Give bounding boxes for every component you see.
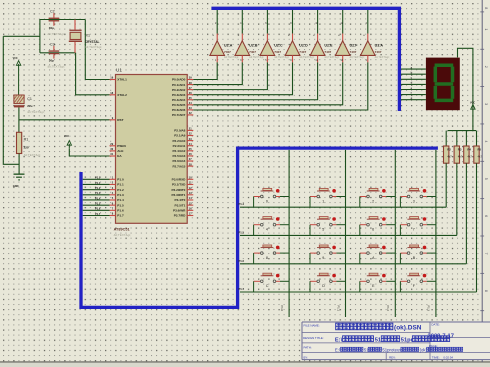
U1 pin 14 P3.4/T0 — [175, 196, 194, 202]
U1 pin 29 PSEN — [110, 142, 127, 148]
svg-text:P1.4: P1.4 — [239, 202, 245, 206]
svg-text:R2: R2 — [447, 148, 451, 152]
svg-text:P1.5: P1.5 — [95, 201, 101, 205]
U1 pin 31 EA — [110, 152, 123, 158]
svg-text:E:\: E:\ — [335, 347, 341, 352]
U1 pin 39 P0.0/AD0 — [172, 76, 193, 82]
U1 pin 28 P2.7/A15 — [172, 162, 193, 168]
wire R4 to keypad row 3 — [465, 163, 467, 264]
svg-text:P1.1: P1.1 — [117, 183, 124, 187]
resistor R3 — [454, 131, 463, 164]
U1 pin 17 P3.7/RD — [174, 212, 194, 218]
svg-text:51proteus: 51proteus — [382, 347, 401, 352]
U1 pin 1 P1.0 — [110, 176, 124, 182]
wire P1.4 bus to U1 with net label P1.4 — [83, 196, 110, 200]
7-segment display body — [426, 58, 460, 111]
svg-text:P1.6: P1.6 — [117, 209, 124, 213]
U1 pin 38 P0.1/AD1 — [172, 81, 193, 87]
svg-text:EA: EA — [117, 154, 122, 158]
push button 7 (row P1.5, col P1.3) — [400, 217, 436, 236]
svg-text:P1.7: P1.7 — [117, 214, 124, 218]
svg-text:8: 8 — [484, 290, 488, 292]
svg-text:P2.4/A12: P2.4/A12 — [172, 149, 185, 153]
svg-text:51pr: 51pr — [401, 337, 414, 343]
svg-text:P0.5/AD5: P0.5/AD5 — [172, 103, 186, 107]
svg-text:P3.2/INT0: P3.2/INT0 — [171, 188, 185, 192]
push button F (row P1.7, col P1.3) — [400, 273, 436, 292]
svg-text:1: 1 — [322, 199, 324, 203]
U1 pin 23 P2.2/A10 — [172, 137, 193, 143]
wire segment c from bus to display — [401, 77, 426, 80]
capacitor C2 — [47, 10, 65, 36]
wire GND branch to crystal loop — [3, 35, 40, 37]
svg-text:7407: 7407 — [224, 50, 231, 54]
svg-text:VCC: VCC — [470, 102, 475, 105]
push button 3 (row P1.4, col P1.3) — [400, 188, 436, 207]
push button 2 (row P1.4, col P1.2) — [360, 188, 396, 207]
svg-text:2: 2 — [484, 66, 488, 68]
U1 pin 5 P1.4 — [110, 196, 124, 202]
svg-text:51: 51 — [375, 337, 381, 343]
U1 pin 19 XTAL1 — [110, 76, 128, 82]
svg-text:P0.0/AD0: P0.0/AD0 — [172, 78, 186, 82]
svg-text:RST: RST — [117, 118, 123, 122]
wire P1.6 bus to U1 with net label P1.6 — [83, 207, 110, 211]
svg-text:8: 8 — [266, 256, 268, 260]
svg-text:P0.6/AD6: P0.6/AD6 — [172, 108, 186, 112]
U1 pin 10 P3.0/RXD — [172, 176, 194, 182]
svg-text:4: 4 — [484, 140, 488, 142]
push button A (row P1.6, col P1.2) — [360, 245, 396, 264]
push button B (row P1.6, col P1.3) — [400, 245, 436, 264]
svg-text:P1.1: P1.1 — [336, 306, 340, 312]
svg-text:5: 5 — [322, 228, 324, 232]
svg-text:(ok).DSN: (ok).DSN — [394, 325, 422, 332]
svg-text:1: 1 — [484, 28, 488, 30]
title block DATE and PAGE — [428, 323, 454, 348]
U1 AT89C51 body — [114, 68, 188, 237]
svg-text:P1.0: P1.0 — [117, 178, 124, 182]
buffer U2:D (U2:D 7407) — [285, 10, 314, 62]
svg-text:U3:A: U3:A — [375, 44, 384, 48]
wire P1.1 bus to U1 with net label P1.1 — [83, 181, 110, 185]
wire P0.4 to buffer 5 input — [193, 62, 317, 99]
svg-text:AT89C51: AT89C51 — [114, 228, 130, 232]
svg-text:P2.2/A10: P2.2/A10 — [172, 139, 185, 143]
buffer U3:A (U3:A 7407) — [361, 10, 390, 62]
svg-text:TIME:: TIME: — [432, 355, 440, 359]
svg-text:R4: R4 — [467, 148, 471, 152]
wire segment d from bus to display — [401, 81, 426, 85]
svg-text:&lt;TEXT&gt;: &lt;TEXT&gt; — [24, 153, 42, 157]
svg-text:7407: 7407 — [274, 50, 281, 54]
svg-text:P1.5: P1.5 — [239, 230, 245, 234]
push button 6 (row P1.5, col P1.2) — [360, 217, 396, 236]
wire P1.2 bus to U1 with net label P1.2 — [83, 186, 110, 190]
svg-text:2: 2 — [372, 199, 374, 203]
svg-text:BY:: BY: — [304, 355, 309, 359]
svg-text:P3.5/T1: P3.5/T1 — [175, 203, 186, 207]
wire left vertical of crystal loop — [39, 19, 41, 53]
svg-text:P1.1: P1.1 — [95, 181, 101, 185]
svg-text:X1: X1 — [86, 34, 90, 38]
U1 pin 24 P2.3/A11 — [173, 142, 194, 148]
svg-text:f: f — [411, 91, 412, 95]
wire pull-up bus (resistor tops) — [448, 130, 477, 132]
wire P0.7 to buffer 7 input — [193, 62, 367, 110]
svg-text:P0.1/AD1: P0.1/AD1 — [172, 83, 186, 87]
wire XTAL2 net: bottom horizontal, vertical down to U1 XTAL2 — [40, 52, 76, 54]
svg-text:7407: 7407 — [299, 50, 306, 54]
wire keypad row P1.6 — [239, 259, 467, 264]
buffer U2:B (U2:B 7407) — [235, 10, 264, 62]
U1 pin 26 P2.5/A13 — [172, 152, 193, 158]
U1 pin 22 P2.1/A9 — [174, 132, 193, 138]
title block row FILE NAME — [304, 323, 422, 331]
U1 pin 8 P1.7 — [110, 212, 124, 218]
U1 pin 2 P1.1 — [110, 181, 124, 187]
svg-text:P2.5/A13: P2.5/A13 — [172, 154, 185, 158]
svg-text:R1: R1 — [24, 137, 29, 141]
U1 pin 11 P3.1/TXD — [172, 181, 193, 187]
wire C1 to R1 — [18, 107, 20, 132]
svg-text:PSEN: PSEN — [117, 144, 126, 148]
U1 pin 4 P1.3 — [110, 191, 124, 197]
sheet border bottom edge — [0, 361, 490, 363]
power flag VCC at display common — [470, 102, 475, 110]
title block row DESIGN TITLE — [303, 336, 450, 344]
wire XTAL1 net: top horizontal, right vertical to U1 XTAL1 — [40, 19, 85, 21]
wire P0.5 to buffer 6 input — [193, 62, 342, 105]
U1 pin 25 P2.4/A12 — [172, 147, 193, 153]
svg-text:P1.6: P1.6 — [95, 207, 101, 211]
U1 pin 36 P0.3/AD3 — [172, 91, 193, 97]
title block row PATH — [304, 345, 463, 352]
svg-text:P3.4/T0: P3.4/T0 — [175, 198, 186, 202]
U1 pin 3 P1.2 — [110, 186, 124, 192]
svg-text:P2.0/A8: P2.0/A8 — [174, 129, 185, 133]
wire P0.0 to buffer 1 input — [193, 62, 217, 79]
push button 9 (row P1.6, col P1.1) — [310, 245, 346, 264]
svg-text:30p: 30p — [49, 59, 54, 63]
svg-text:220: 220 — [24, 146, 29, 150]
svg-text:U2:B: U2:B — [249, 44, 258, 48]
svg-text:3: 3 — [484, 103, 488, 105]
svg-text:7: 7 — [484, 253, 488, 255]
title block row BY REV TIME — [304, 355, 454, 359]
wire R3 to keypad row 2 — [456, 163, 458, 235]
U1 pin 7 P1.6 — [110, 207, 124, 213]
svg-text:4k7: 4k7 — [467, 155, 472, 159]
svg-text:P1.5: P1.5 — [117, 203, 124, 207]
svg-text:P3.1/TXD: P3.1/TXD — [172, 183, 186, 187]
svg-text:VCC: VCC — [64, 135, 69, 138]
svg-text:U2:F: U2:F — [350, 44, 359, 48]
buffer U2:A (U2:A 7407) — [210, 10, 239, 62]
svg-text:P0.4/AD4: P0.4/AD4 — [172, 98, 186, 102]
svg-text:U2:E: U2:E — [324, 44, 333, 48]
svg-text:DESIGN TITLE:: DESIGN TITLE: — [303, 336, 324, 340]
svg-text:C2: C2 — [50, 10, 55, 14]
push button 0 (row P1.4, col P1.0) — [254, 188, 290, 207]
wire keypad column P1.0 — [280, 150, 289, 317]
svg-text:C: C — [266, 284, 269, 288]
svg-text:R3: R3 — [458, 148, 462, 152]
bus wire (thick blue) buffer outputs to 7-segment display — [211, 8, 399, 111]
capacitor C3 — [47, 42, 65, 68]
svg-text:U2:A: U2:A — [224, 44, 233, 48]
svg-text:P1.3: P1.3 — [95, 191, 101, 195]
wire segment g from bus to display — [401, 97, 426, 100]
svg-text:7: 7 — [413, 228, 415, 232]
wire keypad column P1.2 — [386, 150, 395, 317]
svg-text:P1.7: P1.7 — [95, 212, 101, 216]
svg-text:P1.6: P1.6 — [239, 259, 245, 263]
svg-text:8: 8 — [484, 7, 488, 9]
svg-text:P3.6/WR: P3.6/WR — [173, 209, 186, 213]
svg-text:6: 6 — [372, 228, 374, 232]
svg-text:0: 0 — [266, 199, 268, 203]
svg-text:&lt;TEXT&gt;: &lt;TEXT&gt; — [47, 65, 65, 69]
resistor R5 — [474, 131, 483, 164]
svg-text:CRYSTAL: CRYSTAL — [85, 40, 100, 44]
U1 pin 6 P1.5 — [110, 201, 124, 207]
wire keypad row P1.5 — [239, 230, 457, 235]
buffer U2:F (U2:F 7407) — [335, 10, 364, 62]
wire VCC to EA — [69, 149, 109, 156]
svg-text:&lt;TEXT&gt;: &lt;TEXT&gt; — [375, 55, 390, 59]
U1 pin 35 P0.4/AD4 — [172, 96, 193, 102]
sheet border right ruler — [480, 0, 488, 362]
svg-text:22u: 22u — [27, 104, 32, 108]
svg-text:&lt;TEXT&gt;: &lt;TEXT&gt; — [27, 110, 45, 114]
wire P0.1 to buffer 2 input — [193, 62, 242, 84]
resistor R4 — [464, 131, 473, 164]
svg-text:P1.4: P1.4 — [117, 198, 124, 202]
resistor R1 — [17, 132, 42, 157]
svg-text:6: 6 — [484, 215, 488, 217]
svg-text:&lt;TEXT&gt;: &lt;TEXT&gt; — [85, 45, 103, 49]
U1 pin 37 P0.2/AD2 — [172, 86, 193, 92]
U1 pin 33 P0.6/AD6 — [172, 106, 193, 112]
U1 pin 32 P0.7/AD7 — [172, 111, 193, 117]
svg-text:3: 3 — [413, 199, 415, 203]
svg-text:P2.6/A14: P2.6/A14 — [172, 159, 185, 163]
svg-text:E:\: E:\ — [335, 337, 343, 343]
svg-text:C1: C1 — [27, 97, 32, 101]
wire P0.3 to buffer 4 input — [193, 62, 292, 94]
svg-text:7407: 7407 — [249, 50, 256, 54]
wire segment b from bus to display — [401, 71, 426, 75]
title block — [302, 322, 490, 360]
svg-text:R5: R5 — [478, 148, 482, 152]
U1 pin 18 XTAL2 — [110, 91, 128, 97]
wire keypad column P1.3 — [427, 150, 436, 317]
svg-text:P1.2: P1.2 — [95, 186, 101, 190]
svg-text:ALE: ALE — [117, 149, 123, 153]
U1 pin 9 RST — [110, 116, 124, 122]
push button 5 (row P1.5, col P1.1) — [310, 217, 346, 236]
U1 pin 13 P3.3/INT1 — [171, 191, 193, 197]
svg-text:9: 9 — [322, 256, 324, 260]
ground — [13, 174, 25, 188]
wire RST to U1 — [19, 119, 110, 121]
wire segment a from bus to display — [401, 66, 426, 69]
svg-text:U2:C: U2:C — [274, 44, 283, 48]
wire P1.3 bus to U1 with net label P1.3 — [83, 191, 110, 195]
svg-text:P1.7: P1.7 — [239, 287, 245, 291]
svg-text:XTAL2: XTAL2 — [117, 93, 127, 97]
svg-text:P3.3/INT1: P3.3/INT1 — [171, 193, 185, 197]
push button 8 (row P1.6, col P1.0) — [254, 245, 290, 264]
crystal X1 — [69, 20, 103, 53]
svg-text:P1.3: P1.3 — [427, 306, 431, 312]
bus wire (thick blue) from P1 wires around to keypad — [81, 148, 438, 307]
svg-text:&lt;TEXT&gt;: &lt;TEXT&gt; — [47, 32, 65, 36]
svg-text:7407: 7407 — [324, 50, 331, 54]
svg-text:7407: 7407 — [350, 50, 357, 54]
svg-text:P0.7/AD7: P0.7/AD7 — [172, 113, 186, 117]
U1 pin 12 P3.2/INT0 — [171, 186, 193, 192]
wire P1.5 bus to U1 with net label P1.5 — [83, 201, 110, 205]
svg-text:P1.0: P1.0 — [95, 176, 101, 180]
svg-text:P2.1/A9: P2.1/A9 — [174, 134, 185, 138]
U1 pin 15 P3.5/T1 — [175, 201, 194, 207]
svg-text:4k7: 4k7 — [447, 155, 452, 159]
svg-text:P0.3/AD3: P0.3/AD3 — [172, 93, 186, 97]
svg-text:DATE:: DATE: — [431, 323, 439, 327]
svg-text:C3: C3 — [50, 42, 55, 46]
svg-text:P2.3/A11: P2.3/A11 — [173, 144, 186, 148]
U1 pin 30 ALE — [110, 147, 124, 153]
wire keypad row P1.7 — [239, 287, 477, 292]
wire keypad column P1.1 — [336, 150, 345, 317]
push button D (row P1.7, col P1.1) — [310, 273, 346, 292]
svg-text:7407: 7407 — [375, 50, 382, 54]
svg-text:FILE NAME:: FILE NAME: — [304, 323, 320, 327]
svg-text:P1.3: P1.3 — [117, 193, 124, 197]
wire R5 to keypad row 4 — [476, 163, 478, 292]
wire R1 to ground — [18, 154, 20, 174]
U1 pin 34 P0.5/AD5 — [172, 101, 193, 107]
buffer U2:E (U2:E 7407) — [310, 10, 339, 62]
U1 pin 16 P3.6/WR — [173, 207, 193, 213]
U1 pin 27 P2.6/A14 — [172, 157, 193, 163]
svg-text:&lt;TEXT&gt;: &lt;TEXT&gt; — [114, 233, 132, 237]
svg-text:PATH:: PATH: — [304, 345, 312, 349]
svg-text:P1.2: P1.2 — [117, 188, 124, 192]
svg-text:REV:: REV: — [389, 355, 396, 359]
wire keypad row P1.4 — [239, 202, 447, 207]
push button 1 (row P1.4, col P1.1) — [310, 188, 346, 207]
svg-text:4k7: 4k7 — [458, 155, 463, 159]
svg-text:4: 4 — [266, 228, 268, 232]
wire P1.0 bus to U1 with net label P1.0 — [83, 176, 110, 180]
svg-text:0:02:54: 0:02:54 — [443, 355, 453, 359]
svg-text:D: D — [322, 284, 325, 288]
svg-text:P3.7/RD: P3.7/RD — [174, 214, 186, 218]
push button C (row P1.7, col P1.0) — [254, 273, 290, 292]
wire P0.2 to buffer 3 input — [193, 62, 267, 89]
wire segment e from bus to display — [401, 87, 426, 90]
power flag VCC at EA pin — [64, 135, 72, 149]
push button E (row P1.7, col P1.2) — [360, 273, 396, 292]
wire far-left GND vertical — [3, 36, 19, 164]
svg-text:P1.2: P1.2 — [386, 306, 390, 312]
capacitor C1 (electrolytic) — [14, 95, 45, 114]
svg-text:XTAL1: XTAL1 — [117, 78, 127, 82]
wire segment f from bus to display — [401, 91, 426, 95]
svg-text:5: 5 — [484, 178, 488, 180]
svg-text:U2:D: U2:D — [299, 44, 308, 48]
svg-text:P1.4: P1.4 — [95, 196, 101, 200]
svg-text:P0.2/AD2: P0.2/AD2 — [172, 88, 186, 92]
U1 pin 21 P2.0/A8 — [174, 127, 193, 133]
svg-text:GND: GND — [13, 184, 19, 188]
wire display common anode to VCC and pull-up bus — [458, 48, 473, 130]
resistor R2 — [444, 131, 453, 164]
svg-text:VCC: VCC — [13, 57, 18, 60]
power flag VCC (reset circuit) — [13, 57, 21, 95]
svg-text:U1: U1 — [116, 68, 122, 73]
wire P1.7 bus to U1 with net label P1.7 — [83, 212, 110, 216]
push button 4 (row P1.5, col P1.0) — [254, 217, 290, 236]
wire R2 to keypad row 1 — [445, 163, 447, 207]
svg-text:30p: 30p — [49, 26, 54, 30]
svg-text:P3.0/RXD: P3.0/RXD — [172, 178, 187, 182]
buffer U2:C (U2:C 7407) — [260, 10, 289, 62]
svg-text:P2.7/A15: P2.7/A15 — [172, 164, 185, 168]
svg-text:P1.0: P1.0 — [280, 306, 284, 312]
